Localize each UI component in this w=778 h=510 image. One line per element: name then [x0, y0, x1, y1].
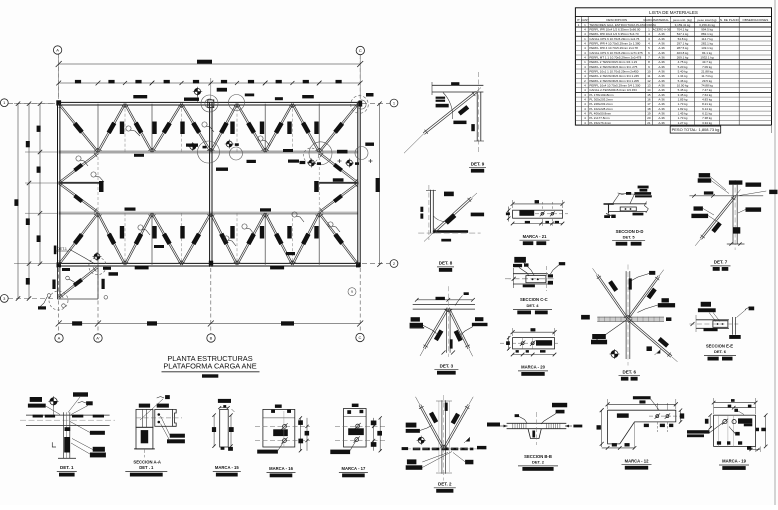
svg-text:21.88 kg: 21.88 kg — [701, 70, 713, 74]
svg-text:5.45 kg: 5.45 kg — [678, 88, 688, 92]
svg-text:PESO TOTAL: 1,808.73 kg: PESO TOTAL: 1,808.73 kg — [672, 127, 720, 132]
position symbols on plan — [193, 87, 202, 96]
svg-text:A-36: A-36 — [658, 65, 665, 69]
svg-text:peso total (kg): peso total (kg) — [697, 18, 716, 22]
svg-text:A-36: A-36 — [658, 102, 665, 106]
svg-text:4.83 kg: 4.83 kg — [702, 98, 712, 102]
materials table LISTA DE MATERIALES — [575, 8, 771, 125]
svg-text:A-36: A-36 — [658, 46, 665, 50]
lower-left bay — [97, 265, 99, 299]
svg-text:A-36: A-36 — [658, 116, 665, 120]
panel verticals — [97, 104, 99, 152]
svg-text:5.40 kg: 5.40 kg — [678, 70, 688, 74]
svg-text:PERFL 10x4 10.70x5.29mm 3/4 1.: PERFL 10x4 10.70x5.29mm 3/4 1.300 — [589, 84, 640, 88]
svg-text:PERFL 2-TENSORx5.0mm 3/4 1.245: PERFL 2-TENSORx5.0mm 3/4 1.245 — [589, 74, 639, 78]
svg-text:MARCA - 16: MARCA - 16 — [269, 466, 293, 471]
svg-text:A-36: A-36 — [658, 51, 665, 55]
svg-text:74.88 kg: 74.88 kg — [701, 84, 713, 88]
svg-text:21: 21 — [647, 121, 651, 125]
svg-text:19: 19 — [647, 112, 651, 116]
svg-text:7.38 kg: 7.38 kg — [702, 116, 712, 120]
svg-text:PERFL IPR 4 10.70x5.29mm 2x 1.: PERFL IPR 4 10.70x5.29mm 2x 1.380 — [589, 42, 640, 46]
svg-text:PL 178x102x8mm: PL 178x102x8mm — [589, 93, 614, 97]
section SECCION B-B DET.2 — [507, 422, 567, 424]
svg-text:DET. 2: DET. 2 — [438, 481, 452, 486]
svg-text:20: 20 — [647, 116, 651, 120]
svg-text:A-36: A-36 — [658, 107, 665, 111]
svg-text:SECCION D-D: SECCION D-D — [616, 229, 644, 234]
svg-text:PERFL IPR 4 10.70x5.29mm 2x4.7: PERFL IPR 4 10.70x5.29mm 2x4.78 — [589, 46, 638, 50]
svg-text:9: 9 — [351, 290, 353, 294]
svg-text:11.74 kg: 11.74 kg — [701, 74, 713, 78]
svg-text:12: 12 — [647, 79, 651, 83]
plate MARCA-17 — [344, 409, 367, 448]
top chord — [57, 101, 361, 103]
small black label blobs on plan — [217, 88, 227, 92]
svg-text:13: 13 — [647, 84, 651, 88]
svg-text:DET. 8: DET. 8 — [439, 261, 453, 266]
svg-text:4.75 kg: 4.75 kg — [678, 60, 688, 64]
weld marks on diagonals — [73, 122, 84, 134]
svg-text:DESCRIPCION: DESCRIPCION — [606, 18, 627, 22]
svg-text:882.1 kg: 882.1 kg — [701, 32, 713, 36]
svg-text:LISTA DE MATERIALES: LISTA DE MATERIALES — [649, 10, 698, 15]
svg-text:A': A' — [96, 335, 100, 340]
svg-text:MARCA - 19: MARCA - 19 — [722, 459, 746, 464]
bottom band diagonals — [59, 214, 98, 266]
svg-text:PERFL IPR 10x4 1/2 6.35mm 5x4.: PERFL IPR 10x4 1/2 6.35mm 5x4.70 — [589, 32, 639, 36]
svg-text:CANAL CPS 6 10.70x5.29mm 1x4.7: CANAL CPS 6 10.70x5.29mm 1x4.76 — [589, 37, 639, 41]
section SECCION A-A DET.1 — [136, 409, 153, 427]
svg-text:C: C — [359, 48, 362, 53]
svg-text:PL 2x177.8mm: PL 2x177.8mm — [589, 116, 610, 120]
svg-text:3,159.41 kg: 3,159.41 kg — [699, 23, 715, 27]
plate MARCA-19 — [687, 430, 710, 433]
svg-text:8.21 kg: 8.21 kg — [702, 102, 712, 106]
svg-text:11: 11 — [647, 74, 650, 78]
svg-text:DET. 3: DET. 3 — [440, 363, 454, 368]
detail DET.1 — [26, 414, 110, 416]
svg-text:A: A — [56, 47, 59, 52]
svg-text:1932.1 kg: 1932.1 kg — [700, 56, 714, 60]
svg-text:6.11 kg: 6.11 kg — [702, 112, 712, 116]
bottom chord — [57, 262, 361, 264]
svg-text:SECCION A-A: SECCION A-A — [133, 460, 161, 465]
svg-text:3,159.41 kg: 3,159.41 kg — [675, 23, 691, 27]
svg-text:PERFL 2-TENSORx5.0mm 3/4 1.205: PERFL 2-TENSORx5.0mm 3/4 1.205 — [589, 79, 639, 83]
svg-text:DET. 2: DET. 2 — [532, 460, 545, 465]
svg-text:7.64 kg: 7.64 kg — [702, 93, 712, 97]
svg-text:A-36: A-36 — [658, 121, 665, 125]
svg-text:PL 305x203.2mm: PL 305x203.2mm — [589, 98, 613, 102]
svg-text:17: 17 — [647, 102, 651, 106]
page border right — [774, 0, 776, 505]
svg-text:1.73 kg: 1.73 kg — [678, 116, 688, 120]
svg-text:PL 102x228.2mm: PL 102x228.2mm — [589, 107, 613, 111]
svg-text:DET. 4: DET. 4 — [526, 303, 539, 308]
bottom dimension line — [59, 323, 361, 325]
svg-text:PLATAFORMA CARGA ANE: PLATAFORMA CARGA ANE — [163, 362, 256, 371]
svg-text:DET. 5: DET. 5 — [623, 234, 636, 239]
svg-text:peso unit. (kg): peso unit. (kg) — [673, 18, 692, 22]
svg-text:114.7 kg: 114.7 kg — [701, 37, 713, 41]
svg-text:PERFL 10x1 1 10.70x5.29mm 2x45: PERFL 10x1 1 10.70x5.29mm 2x450 — [589, 70, 638, 74]
svg-text:29.5 kg: 29.5 kg — [702, 79, 712, 83]
svg-text:5.46 kg: 5.46 kg — [678, 79, 688, 83]
svg-text:PL 152x76.2mm: PL 152x76.2mm — [589, 121, 611, 125]
svg-text:A-36: A-36 — [658, 74, 665, 78]
plate MARCA-15 — [220, 409, 229, 447]
svg-text:7.47 kg: 7.47 kg — [702, 88, 712, 92]
detail DET.9 corner — [432, 84, 483, 86]
detail DET.8 corner — [430, 190, 432, 234]
svg-text:A-36: A-36 — [658, 37, 665, 41]
svg-text:MATERIAL: MATERIAL — [654, 18, 669, 22]
svg-text:PL 228x203.2mm: PL 228x203.2mm — [589, 102, 613, 106]
svg-text:SECCION E-E: SECCION E-E — [706, 344, 733, 349]
svg-text:1.82 kg: 1.82 kg — [678, 107, 688, 111]
plate MARCA-20 — [513, 338, 555, 349]
svg-text:1.45 kg: 1.45 kg — [678, 112, 688, 116]
svg-text:16: 16 — [647, 98, 651, 102]
plate MARCA-21 — [513, 210, 563, 218]
svg-text:18: 18 — [647, 107, 651, 111]
grid lines dashed — [58, 54, 60, 99]
svg-text:IT: IT — [577, 18, 580, 22]
svg-text:14: 14 — [647, 88, 651, 92]
svg-text:1.27 kg: 1.27 kg — [678, 121, 688, 125]
in-panel vertical text marks — [120, 122, 124, 135]
svg-text:704.1 kg: 704.1 kg — [677, 27, 689, 31]
svg-text:OBSERVACIONES: OBSERVACIONES — [743, 18, 769, 22]
svg-text:MARCA - 20: MARCA - 20 — [521, 365, 545, 370]
svg-text:N. DE PLANO: N. DE PLANO — [720, 18, 740, 22]
columns — [57, 102, 59, 267]
svg-text:54.8 kg: 54.8 kg — [678, 37, 688, 41]
svg-text:A-36: A-36 — [658, 32, 665, 36]
svg-text:DET. 9: DET. 9 — [471, 161, 485, 166]
horizontal member thick dashed — [413, 448, 474, 451]
svg-text:7.09 kg: 7.09 kg — [702, 65, 712, 69]
svg-text:DET.1: DET.1 — [57, 247, 67, 251]
svg-text:A-36: A-36 — [658, 88, 665, 92]
plate MARCA-16 — [263, 409, 295, 447]
svg-text:282.1 kg: 282.1 kg — [701, 42, 713, 46]
section SECCION D-D DET.5 — [609, 203, 647, 205]
top dimension lines — [59, 63, 361, 65]
left dimension lines — [17, 104, 19, 299]
svg-text:A-36: A-36 — [658, 56, 665, 60]
detail DET.2 X-joint — [441, 400, 443, 474]
svg-text:A-36: A-36 — [658, 79, 665, 83]
svg-text:547.1 kg: 547.1 kg — [677, 32, 689, 36]
detail DET.7 — [732, 185, 734, 244]
svg-text:PERFL IPR 10x4 1/2 6.35mm 5x66: PERFL IPR 10x4 1/2 6.35mm 5x66.00 — [589, 27, 640, 31]
section SECCION C-C DET.4 — [513, 273, 548, 275]
grid bubbles — [53, 46, 61, 54]
svg-text:A-36: A-36 — [658, 42, 665, 46]
svg-text:43.7 kg: 43.7 kg — [702, 60, 712, 64]
svg-text:TENSORES GUA. ESTRUCTURA PLATA: TENSORES GUA. ESTRUCTURA PLATAFORMA — [589, 23, 656, 27]
detail DET.3 T-joint — [413, 304, 475, 306]
right vertical dimension — [379, 104, 381, 265]
svg-text:CANAL CPS 6 10.70x5.29mm 1x71.: CANAL CPS 6 10.70x5.29mm 1x71.375 — [589, 51, 643, 55]
callout circles on plan — [201, 95, 218, 112]
svg-text:10.00 kg: 10.00 kg — [677, 84, 689, 88]
svg-text:PERFL 2 TENSORx5.0mm 3/4 1.23: PERFL 2 TENSORx5.0mm 3/4 1.23 — [589, 60, 637, 64]
section SECCION E-E DET.6 — [696, 319, 729, 321]
svg-text:A-36: A-36 — [658, 93, 665, 97]
svg-text:A-36: A-36 — [658, 84, 665, 88]
svg-text:DET. 1: DET. 1 — [60, 465, 74, 470]
svg-text:1.34 kg: 1.34 kg — [678, 74, 688, 78]
svg-text:ACERO A-36: ACERO A-36 — [653, 27, 671, 31]
svg-text:MARCA - 21: MARCA - 21 — [523, 234, 547, 239]
interior chords (grey) — [59, 150, 359, 153]
svg-text:10: 10 — [647, 70, 651, 74]
svg-text:15: 15 — [647, 93, 651, 97]
column cap at B — [208, 100, 214, 108]
svg-text:287.5 kg: 287.5 kg — [677, 46, 689, 50]
svg-text:1.85 kg: 1.85 kg — [678, 98, 688, 102]
svg-text:MARCA - 15: MARCA - 15 — [215, 465, 239, 470]
detail DET.6 star joint — [625, 271, 627, 359]
svg-text:1.73 kg: 1.73 kg — [678, 102, 688, 106]
svg-text:5.20 kg: 5.20 kg — [678, 65, 688, 69]
svg-text:DET. 6: DET. 6 — [623, 369, 637, 374]
svg-text:PERFL 2-TENSORx5.0mm 3/4 .275: PERFL 2-TENSORx5.0mm 3/4 .275 — [589, 65, 637, 69]
svg-text:C: C — [359, 335, 362, 340]
svg-text:MARCA: MARCA — [643, 18, 654, 22]
svg-text:CANT: CANT — [581, 18, 589, 22]
svg-text:PL 406x50.8mm: PL 406x50.8mm — [589, 112, 611, 116]
svg-text:9.14 kg: 9.14 kg — [702, 107, 712, 111]
svg-text:PERFL MT 1 1 10.70x5.29mm 2x0.: PERFL MT 1 1 10.70x5.29mm 2x0.478 — [589, 56, 641, 60]
svg-text:84.1 kg: 84.1 kg — [702, 51, 712, 55]
svg-text:149.1 kg: 149.1 kg — [701, 46, 713, 50]
svg-text:A: A — [58, 335, 61, 340]
svg-text:SECCION C-C: SECCION C-C — [520, 297, 548, 302]
svg-text:MARCA - 12: MARCA - 12 — [625, 458, 649, 463]
top band diagonals — [58, 104, 97, 152]
svg-text:994.5 kg: 994.5 kg — [701, 27, 713, 31]
svg-text:CANAL 2-TENSORx5.0mm 3/4 453: CANAL 2-TENSORx5.0mm 3/4 453 — [589, 88, 637, 92]
svg-text:DET. 6: DET. 6 — [714, 349, 727, 354]
peso total box — [670, 126, 721, 133]
svg-text:A-36: A-36 — [658, 60, 665, 64]
svg-text:269.1 kg: 269.1 kg — [677, 56, 689, 60]
plate MARCA-12 — [608, 410, 676, 444]
svg-text:403.8 kg: 403.8 kg — [677, 51, 689, 55]
svg-text:MARCA - 17: MARCA - 17 — [341, 466, 365, 471]
svg-text:A-36: A-36 — [658, 98, 665, 102]
mid band K braces — [59, 154, 98, 184]
svg-text:297.1 kg: 297.1 kg — [677, 42, 689, 46]
svg-text:B: B — [210, 335, 213, 340]
svg-text:3.45 kg: 3.45 kg — [678, 93, 688, 97]
svg-text:DET. 7: DET. 7 — [714, 260, 728, 265]
svg-text:A-36: A-36 — [658, 112, 665, 116]
svg-text:A-36: A-36 — [658, 70, 665, 74]
svg-text:DET . 1: DET . 1 — [139, 465, 154, 470]
svg-text:SECCION B-B: SECCION B-B — [524, 454, 552, 459]
leader squiggles on plan — [130, 130, 140, 136]
svg-text:3.34 kg: 3.34 kg — [702, 121, 712, 125]
